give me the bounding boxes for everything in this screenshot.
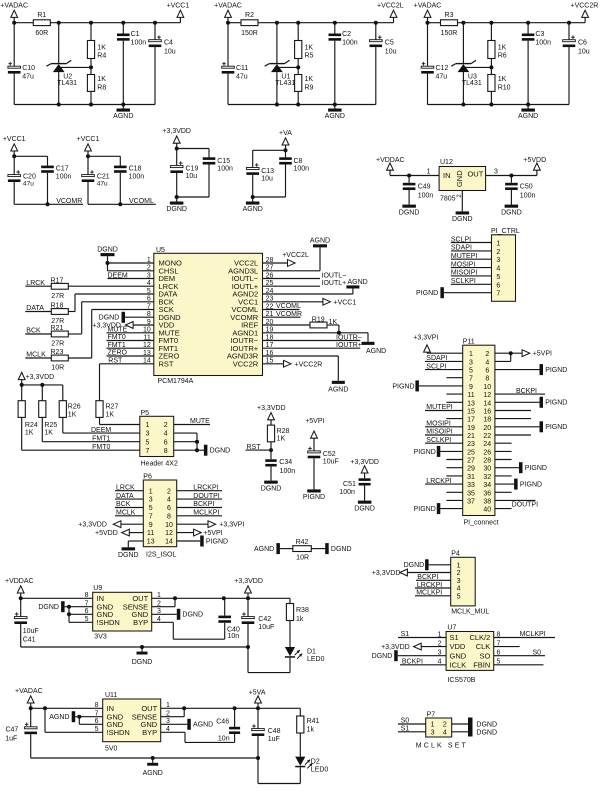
svg-text:+VCC1: +VCC1: [334, 299, 357, 306]
svg-text:GND: GND: [450, 651, 467, 660]
svg-text:4: 4: [443, 729, 447, 736]
svg-text:30: 30: [483, 466, 491, 473]
svg-text:+5VPI: +5VPI: [203, 530, 222, 537]
svg-text:BCKPI: BCKPI: [516, 388, 537, 395]
svg-text:4: 4: [485, 359, 489, 366]
svg-text:D2: D2: [311, 758, 320, 765]
svg-text:+3,3VDD: +3,3VDD: [78, 522, 107, 529]
svg-text:11: 11: [467, 392, 474, 399]
svg-text:PI_connect: PI_connect: [464, 519, 499, 526]
svg-text:4: 4: [496, 266, 500, 273]
svg-text:MCLKPI: MCLKPI: [520, 631, 546, 638]
svg-text:DGND: DGND: [99, 315, 120, 322]
svg-text:AGND: AGND: [366, 348, 386, 355]
svg-text:C47: C47: [5, 726, 18, 733]
svg-text:C15: C15: [217, 158, 230, 165]
svg-text:DGND: DGND: [97, 246, 118, 253]
svg-text:C51: C51: [343, 481, 356, 488]
svg-text:PIGND: PIGND: [545, 367, 567, 374]
svg-text:DGND: DGND: [38, 604, 59, 611]
svg-text:FMT1: FMT1: [92, 436, 110, 443]
svg-text:IOUTL−: IOUTL−: [322, 272, 347, 279]
svg-text:BCKPI: BCKPI: [193, 501, 214, 508]
svg-text:R6: R6: [498, 52, 507, 59]
svg-text:VCOML: VCOML: [129, 198, 154, 205]
svg-text:PIGND: PIGND: [416, 290, 438, 297]
svg-text:100n: 100n: [56, 174, 72, 181]
svg-text:C19: C19: [186, 166, 199, 173]
svg-text:3: 3: [469, 359, 473, 366]
svg-text:10: 10: [165, 522, 173, 529]
svg-text:R3: R3: [445, 12, 454, 19]
svg-text:DGND: DGND: [261, 485, 282, 492]
svg-text:6: 6: [164, 439, 168, 446]
svg-text:23: 23: [467, 441, 475, 448]
svg-text:100n: 100n: [339, 489, 355, 496]
svg-text:1: 1: [469, 351, 473, 358]
svg-text:1: 1: [427, 168, 431, 175]
svg-text:C4: C4: [164, 40, 173, 47]
svg-text:C50: C50: [520, 184, 533, 191]
svg-text:LED0: LED0: [311, 766, 329, 773]
svg-text:DGND: DGND: [372, 653, 393, 660]
svg-text:10: 10: [483, 384, 491, 391]
svg-text:DOUTPI: DOUTPI: [512, 502, 538, 509]
svg-text:P4: P4: [451, 551, 460, 558]
svg-text:10u: 10u: [385, 48, 397, 55]
svg-text:AGND: AGND: [113, 113, 133, 120]
svg-text:AGND: AGND: [243, 206, 263, 213]
svg-text:31: 31: [467, 474, 475, 481]
svg-text:+VADAC: +VADAC: [214, 2, 242, 9]
svg-text:7: 7: [469, 376, 473, 383]
svg-text:+5VDD: +5VDD: [95, 530, 118, 537]
svg-text:10n: 10n: [218, 735, 230, 742]
svg-text:+5VPI: +5VPI: [305, 418, 324, 425]
svg-text:PCM1794A: PCM1794A: [158, 378, 194, 385]
svg-text:C11: C11: [236, 65, 248, 72]
svg-text:8: 8: [485, 376, 489, 383]
svg-text:1uF: 1uF: [5, 735, 17, 742]
svg-text:36: 36: [483, 490, 491, 497]
svg-text:1: 1: [496, 241, 500, 248]
svg-text:7: 7: [149, 513, 153, 520]
svg-text:P11: P11: [463, 339, 475, 346]
svg-text:+3,3VDD: +3,3VDD: [381, 644, 410, 651]
svg-text:TL431: TL431: [57, 80, 77, 87]
svg-text:3V3: 3V3: [94, 634, 107, 641]
svg-text:MCLK_MUL: MCLK_MUL: [451, 609, 489, 616]
svg-text:+VA: +VA: [279, 130, 292, 137]
svg-text:AGND: AGND: [328, 386, 348, 393]
svg-text:14: 14: [165, 539, 173, 546]
svg-text:2: 2: [164, 422, 168, 429]
svg-text:+VCC1: +VCC1: [167, 3, 190, 10]
svg-text:1K: 1K: [68, 411, 77, 418]
svg-text:9: 9: [149, 522, 153, 529]
svg-text:1K: 1K: [329, 319, 338, 326]
svg-text:C17: C17: [56, 165, 69, 172]
svg-text:10u: 10u: [164, 48, 176, 55]
svg-text:AGND: AGND: [348, 279, 368, 286]
svg-text:!SHDN: !SHDN: [107, 728, 130, 737]
svg-text:1K: 1K: [305, 44, 314, 51]
svg-text:17: 17: [467, 417, 475, 424]
svg-text:PIGND: PIGND: [520, 482, 542, 489]
svg-text:MUTE: MUTE: [190, 418, 210, 425]
svg-text:IOUTR−: IOUTR−: [336, 335, 362, 342]
svg-text:C12: C12: [436, 65, 449, 72]
svg-text:100n: 100n: [418, 192, 434, 199]
svg-text:+3,3VDD: +3,3VDD: [26, 374, 55, 381]
svg-text:+3,3VPI: +3,3VPI: [413, 335, 438, 342]
svg-text:R4: R4: [97, 52, 106, 59]
svg-text:26: 26: [483, 449, 491, 456]
svg-text:4: 4: [457, 586, 461, 593]
svg-text:10uF: 10uF: [323, 458, 339, 465]
svg-text:AGND: AGND: [254, 546, 274, 553]
svg-text:+3,3VDD: +3,3VDD: [257, 405, 286, 412]
svg-text:IOUTR+: IOUTR+: [336, 342, 362, 349]
svg-text:C52: C52: [323, 451, 336, 458]
svg-text:1K: 1K: [97, 76, 106, 83]
svg-text:S0: S0: [533, 649, 542, 656]
svg-text:LRCKPI: LRCKPI: [193, 484, 218, 491]
svg-text:7: 7: [146, 448, 150, 455]
svg-text:P5: P5: [141, 410, 150, 417]
svg-text:13: 13: [467, 400, 475, 407]
svg-text:10R: 10R: [296, 554, 309, 561]
svg-text:21: 21: [467, 433, 475, 440]
svg-text:AGND: AGND: [325, 113, 345, 120]
svg-text:4: 4: [167, 497, 171, 504]
svg-text:3: 3: [431, 729, 435, 736]
svg-text:1K: 1K: [97, 44, 106, 51]
svg-text:2: 2: [167, 488, 171, 495]
svg-text:1: 1: [146, 422, 150, 429]
svg-text:MUTEPI: MUTEPI: [451, 253, 478, 260]
svg-text:PIGND: PIGND: [206, 538, 228, 545]
svg-text:BYP: BYP: [142, 728, 157, 737]
svg-text:100n: 100n: [294, 165, 310, 172]
svg-text:+3,3VDD: +3,3VDD: [372, 570, 401, 577]
svg-text:100n: 100n: [129, 174, 145, 181]
svg-text:DGND: DGND: [132, 659, 153, 666]
svg-text:14: 14: [483, 400, 491, 407]
svg-text:12: 12: [483, 392, 491, 399]
svg-text:R23: R23: [51, 349, 64, 356]
svg-text:3: 3: [146, 431, 150, 438]
svg-text:5: 5: [457, 593, 461, 600]
svg-text:+VCC2L: +VCC2L: [377, 3, 404, 10]
svg-text:3: 3: [496, 257, 500, 264]
svg-text:3: 3: [457, 578, 461, 585]
svg-text:TL431: TL431: [462, 80, 482, 87]
svg-text:27: 27: [467, 458, 475, 465]
svg-text:DOUTPI: DOUTPI: [193, 493, 220, 500]
svg-text:PI_CTRL: PI_CTRL: [491, 228, 520, 235]
svg-text:1: 1: [149, 488, 153, 495]
svg-text:1: 1: [457, 562, 461, 569]
svg-text:24: 24: [483, 441, 491, 448]
svg-text:DGND: DGND: [404, 562, 425, 569]
svg-text:100n: 100n: [280, 468, 296, 475]
svg-text:28: 28: [483, 458, 491, 465]
svg-text:1K: 1K: [25, 430, 34, 437]
svg-text:1K: 1K: [498, 44, 507, 51]
svg-text:R19: R19: [312, 316, 325, 323]
svg-text:150R: 150R: [241, 30, 258, 37]
svg-text:LRCKPI: LRCKPI: [426, 478, 451, 485]
svg-text:47u: 47u: [97, 180, 108, 187]
svg-text:10uF: 10uF: [258, 624, 274, 631]
svg-text:R28: R28: [277, 428, 290, 435]
svg-text:13: 13: [147, 539, 155, 546]
svg-text:47u: 47u: [236, 74, 248, 81]
svg-text:RST: RST: [159, 359, 174, 368]
svg-text:AGND: AGND: [143, 770, 163, 777]
svg-text:SO: SO: [479, 651, 490, 660]
svg-text:35: 35: [467, 490, 475, 497]
svg-text:2: 2: [443, 722, 447, 729]
svg-text:1K: 1K: [44, 430, 53, 437]
svg-text:34: 34: [483, 482, 491, 489]
svg-text:5: 5: [496, 274, 500, 281]
svg-text:1K: 1K: [498, 76, 507, 83]
svg-text:+VDDAC: +VDDAC: [5, 578, 34, 585]
svg-text:R8: R8: [97, 84, 106, 91]
svg-text:10u: 10u: [578, 48, 590, 55]
svg-text:100n: 100n: [342, 40, 358, 47]
svg-text:S1: S1: [450, 633, 459, 642]
svg-text:5: 5: [469, 368, 473, 375]
svg-text:C46: C46: [216, 719, 229, 726]
svg-text:5V0: 5V0: [105, 746, 118, 753]
svg-text:SDAPI: SDAPI: [426, 355, 447, 362]
svg-text:47u: 47u: [436, 74, 448, 81]
svg-text:R9: R9: [305, 84, 314, 91]
svg-text:60R: 60R: [35, 30, 48, 37]
svg-text:47u: 47u: [23, 180, 34, 187]
svg-text:C48: C48: [268, 728, 281, 735]
svg-text:+VCC2L: +VCC2L: [282, 252, 309, 259]
svg-text:8: 8: [167, 513, 171, 520]
svg-text:DGND: DGND: [182, 612, 203, 619]
svg-text:+3,3VPI: +3,3VPI: [219, 522, 244, 529]
svg-text:19: 19: [467, 425, 475, 432]
svg-text:47u: 47u: [22, 74, 34, 81]
svg-text:5: 5: [146, 439, 150, 446]
svg-text:AGND: AGND: [518, 113, 538, 120]
svg-text:PIGND: PIGND: [414, 506, 436, 513]
svg-text:FMT0: FMT0: [92, 444, 110, 451]
svg-text:C42: C42: [258, 616, 271, 623]
svg-text:SCLKPI: SCLKPI: [426, 437, 451, 444]
svg-text:DGND: DGND: [452, 216, 473, 223]
svg-text:IOUTL+: IOUTL+: [322, 280, 347, 287]
svg-text:C8: C8: [294, 158, 303, 165]
svg-text:8: 8: [95, 702, 99, 709]
svg-text:C13: C13: [261, 168, 274, 175]
svg-text:10n: 10n: [228, 633, 240, 640]
svg-text:PIGND: PIGND: [414, 449, 436, 456]
svg-text:22: 22: [483, 433, 491, 440]
svg-text:DGND: DGND: [476, 721, 497, 728]
svg-text:PIGND: PIGND: [545, 400, 567, 407]
svg-text:+5VDD: +5VDD: [523, 157, 546, 164]
svg-text:D1: D1: [307, 648, 316, 655]
svg-text:VCOMR: VCOMR: [276, 311, 302, 318]
svg-text:29: 29: [467, 466, 475, 473]
svg-text:40: 40: [483, 507, 491, 514]
svg-text:8: 8: [85, 592, 89, 599]
svg-text:DEEM: DEEM: [91, 427, 111, 434]
svg-text:VCOML: VCOML: [276, 303, 301, 310]
svg-text:2: 2: [457, 570, 461, 577]
svg-text:+VCC1: +VCC1: [3, 136, 26, 143]
svg-text:C10: C10: [22, 65, 35, 72]
svg-text:VCC2R: VCC2R: [233, 359, 259, 368]
svg-text:DGND: DGND: [399, 209, 420, 216]
svg-text:R38: R38: [296, 607, 309, 614]
svg-text:RST: RST: [247, 444, 262, 451]
svg-text:U9: U9: [93, 585, 102, 592]
svg-text:R10: R10: [498, 84, 511, 91]
svg-text:DGND: DGND: [210, 448, 231, 455]
svg-text:CLK/2: CLK/2: [469, 633, 490, 642]
svg-text:LED0: LED0: [307, 656, 325, 663]
svg-text:R1: R1: [37, 12, 46, 19]
svg-text:AGND: AGND: [310, 238, 330, 245]
svg-text:8: 8: [164, 448, 168, 455]
svg-text:4: 4: [164, 431, 168, 438]
svg-text:R26: R26: [68, 404, 81, 411]
svg-text:C34: C34: [279, 459, 292, 466]
svg-text:DGND: DGND: [476, 730, 497, 737]
svg-text:100n: 100n: [535, 40, 551, 47]
svg-text:R27: R27: [106, 404, 119, 411]
svg-text:2: 2: [485, 351, 489, 358]
svg-text:R42: R42: [296, 539, 309, 546]
svg-text:PIGND: PIGND: [303, 494, 325, 501]
svg-text:27R: 27R: [51, 293, 64, 300]
svg-text:R41: R41: [307, 718, 320, 725]
svg-text:1k: 1k: [307, 726, 315, 733]
svg-text:+VADAC: +VADAC: [414, 2, 442, 9]
svg-text:C18: C18: [129, 165, 142, 172]
svg-text:6: 6: [496, 282, 500, 289]
svg-text:SCLPI: SCLPI: [451, 236, 471, 243]
svg-text:R5: R5: [305, 52, 314, 59]
svg-text:+VADAC: +VADAC: [0, 2, 28, 9]
svg-text:33: 33: [467, 482, 475, 489]
svg-text:1: 1: [431, 722, 435, 729]
svg-text:16: 16: [483, 409, 491, 416]
svg-text:1K: 1K: [277, 436, 286, 443]
svg-text:VCOMR: VCOMR: [56, 198, 82, 205]
svg-text:C2: C2: [342, 31, 351, 38]
svg-text:!SHDN: !SHDN: [97, 618, 120, 627]
svg-text:ICLK: ICLK: [450, 660, 467, 669]
svg-text:18: 18: [483, 417, 491, 424]
svg-text:DGND: DGND: [501, 209, 522, 216]
svg-text:27R: 27R: [51, 341, 64, 348]
svg-text:C5: C5: [385, 40, 394, 47]
svg-text:C3: C3: [535, 31, 544, 38]
svg-text:7805: 7805: [440, 196, 456, 203]
svg-text:15: 15: [467, 409, 475, 416]
svg-text:100n: 100n: [520, 192, 536, 199]
svg-text:U5: U5: [156, 247, 165, 254]
svg-text:SCLKPI: SCLKPI: [451, 278, 476, 285]
svg-text:PIGND: PIGND: [525, 465, 547, 472]
svg-text:3: 3: [149, 497, 153, 504]
svg-text:5: 5: [149, 505, 153, 512]
svg-text:+VADAC: +VADAC: [15, 688, 43, 695]
svg-text:38: 38: [483, 498, 491, 505]
svg-text:PIGND: PIGND: [392, 383, 414, 390]
svg-text:1uF: 1uF: [268, 736, 280, 743]
svg-text:6: 6: [485, 368, 489, 375]
svg-text:9: 9: [469, 384, 473, 391]
svg-text:+VCC2R: +VCC2R: [571, 3, 599, 10]
svg-text:U7: U7: [447, 624, 456, 631]
svg-text:GND: GND: [455, 170, 464, 187]
svg-text:+5VA: +5VA: [249, 689, 266, 696]
svg-text:+3,3VDD: +3,3VDD: [162, 128, 191, 135]
svg-text:TL431: TL431: [275, 80, 295, 87]
svg-text:10R: 10R: [51, 365, 64, 372]
svg-text:C1: C1: [131, 31, 140, 38]
svg-text:2: 2: [496, 249, 500, 256]
svg-text:R2: R2: [245, 12, 254, 19]
svg-text:VDD: VDD: [450, 642, 466, 651]
svg-text:SDAPI: SDAPI: [451, 245, 472, 252]
svg-text:3: 3: [494, 168, 498, 175]
svg-text:C6: C6: [578, 40, 587, 47]
svg-text:1K: 1K: [305, 76, 314, 83]
svg-text:20: 20: [483, 425, 491, 432]
svg-text:ICS570B: ICS570B: [447, 677, 475, 684]
svg-text:32: 32: [483, 474, 491, 481]
svg-text:1k: 1k: [296, 616, 304, 623]
svg-text:Header 4X2: Header 4X2: [141, 460, 178, 467]
svg-text:7: 7: [496, 291, 500, 298]
svg-text:MOSIPI: MOSIPI: [426, 421, 451, 428]
svg-text:25: 25: [467, 449, 475, 456]
svg-text:P7: P7: [427, 711, 436, 718]
svg-text:+3,3VDD: +3,3VDD: [234, 578, 263, 585]
svg-text:C41: C41: [23, 636, 36, 643]
svg-text:R21: R21: [51, 325, 64, 332]
svg-text:MCLKPI: MCLKPI: [193, 510, 219, 517]
svg-text:+VCC2R: +VCC2R: [295, 361, 323, 368]
svg-text:1K: 1K: [106, 411, 115, 418]
svg-text:10u: 10u: [186, 173, 198, 180]
svg-text:R18: R18: [51, 303, 64, 310]
svg-text:BYP: BYP: [133, 618, 148, 627]
svg-text:FBIN: FBIN: [473, 660, 490, 669]
svg-text:P6: P6: [143, 473, 152, 480]
svg-text:MISOIPI: MISOIPI: [451, 270, 478, 277]
svg-text:MCLK SET: MCLK SET: [416, 743, 467, 750]
svg-text:10uF: 10uF: [23, 628, 39, 635]
svg-text:6: 6: [167, 505, 171, 512]
svg-text:12: 12: [165, 530, 173, 537]
svg-text:MUTEPI: MUTEPI: [426, 404, 453, 411]
svg-text:AGND: AGND: [193, 722, 213, 729]
svg-text:150R: 150R: [441, 30, 458, 37]
